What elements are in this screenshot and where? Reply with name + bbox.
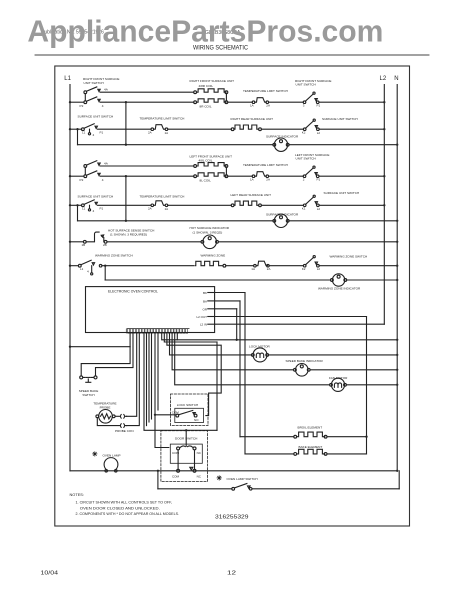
wire row H to N: [289, 220, 397, 222]
switch left front row F: [303, 175, 306, 178]
wire L1 bottom corner to N: [70, 470, 397, 472]
junction row C drop to row D: [76, 128, 78, 130]
junction row J to row K: [104, 265, 106, 267]
wire L1 bus: [69, 85, 71, 471]
svg-text:8L COIL: 8L COIL: [200, 179, 212, 183]
svg-text:SWITCH: SWITCH: [82, 393, 94, 397]
wire harness 13 short: [176, 333, 178, 340]
wire harness 7 row to N: [162, 333, 398, 340]
svg-text:2A: 2A: [148, 130, 152, 134]
wire row J to N: [319, 265, 397, 267]
svg-text:10/04: 10/04: [41, 571, 59, 577]
svg-text:4A: 4A: [104, 88, 109, 92]
junction row B at L2: [383, 101, 385, 103]
svg-text:UNIT SWITCH: UNIT SWITCH: [296, 157, 316, 161]
junction L1 row J: [69, 265, 71, 267]
switch surface unit row G right: [303, 204, 306, 207]
svg-text:2. COMPONENTS WITH * DO NOT: 2. COMPONENTS WITH * DO NOT APPEAR ON AL…: [76, 511, 180, 516]
wire lamp switch branch up: [398, 471, 400, 489]
wire L2 bus: [383, 85, 385, 325]
svg-text:K2: K2: [302, 267, 306, 271]
wire vertical 217: [216, 342, 218, 430]
indicator hot surface: [201, 240, 204, 243]
junction row D at N: [396, 144, 398, 146]
wire fan motor to N: [346, 384, 397, 386]
switch SW2 left front surface unit switch pole 1: [84, 165, 87, 168]
svg-text:BAKE ELEMENT: BAKE ELEMENT: [299, 445, 323, 449]
heating element bake: [294, 453, 297, 456]
wire harness 8 to door stem vertical: [164, 333, 217, 342]
wire stub BA to broil feed: [215, 300, 240, 302]
svg-text:COM: COM: [172, 475, 180, 479]
wire harness 2 speed bake return: [96, 333, 134, 376]
svg-text:K2: K2: [302, 130, 306, 134]
svg-text:4: 4: [102, 178, 104, 182]
svg-text:SURFACE UNIT SWITCH: SURFACE UNIT SWITCH: [78, 115, 114, 119]
svg-text:P1: P1: [317, 103, 321, 107]
wire switch to temp limit row C: [98, 128, 151, 130]
wire row K to N: [347, 279, 398, 281]
svg-text:L2: L2: [317, 131, 321, 135]
wire harness 4 probe bottom: [127, 333, 140, 425]
wire L1 feed to harness: [70, 346, 130, 348]
svg-text:WARMING ZONE: WARMING ZONE: [201, 254, 226, 258]
switch door upper contacts: [177, 447, 180, 450]
coil left rear surface unit: [231, 204, 234, 207]
svg-text:NC: NC: [197, 475, 202, 479]
svg-text:BK: BK: [203, 291, 207, 295]
svg-text:L1: L1: [64, 76, 71, 82]
wire row F to coil: [100, 175, 194, 177]
svg-text:TEMPERATURE LIMIT SWITCH: TEMPERATURE LIMIT SWITCH: [140, 194, 185, 198]
svg-text:L1: L1: [82, 207, 86, 211]
wire harness 6 lock and door com feed: [155, 333, 169, 447]
lock switch outer box: [171, 394, 209, 426]
wire temp limit to left rear coil: [168, 204, 232, 206]
svg-text:L2: L2: [317, 267, 321, 271]
svg-text:UNIT SWITCH: UNIT SWITCH: [296, 83, 316, 87]
wire OR vertical: [236, 309, 238, 340]
wire harness spare d: [157, 333, 159, 410]
wire BA vertical to broil: [239, 301, 241, 437]
switch warming zone: [78, 264, 81, 267]
svg-text:OVEN LAMP SWITCH: OVEN LAMP SWITCH: [227, 477, 258, 481]
wire row D to N: [289, 144, 397, 146]
wire stub L2 IN to L2 bus: [215, 323, 385, 325]
svg-text:2A: 2A: [148, 207, 152, 211]
svg-text:COM: COM: [172, 410, 180, 414]
indicator warming zone: [331, 279, 334, 282]
wire stub BK to bake feed: [215, 292, 245, 294]
svg-text:4: 4: [87, 269, 89, 273]
wire lamp switch branch down: [157, 471, 159, 489]
svg-text:316255329: 316255329: [215, 514, 249, 520]
svg-text:WARMING ZONE INDICATOR: WARMING ZONE INDICATOR: [318, 286, 361, 290]
svg-text:TEMPERATURE LIMIT SWITCH: TEMPERATURE LIMIT SWITCH: [243, 163, 288, 167]
svg-text:P2: P2: [80, 178, 84, 182]
svg-text:TEMPERATURE LIMIT SWITCH: TEMPERATURE LIMIT SWITCH: [243, 89, 288, 93]
electronic oven control box: [86, 287, 215, 333]
svg-text:P1: P1: [100, 207, 104, 211]
junction row B vertical drop: [125, 101, 127, 103]
junction lock feed: [154, 414, 156, 416]
wire row B to L2: [319, 101, 384, 103]
motor fan motor: [330, 383, 333, 386]
wire row F to row H drop: [125, 176, 127, 221]
wire L2 OUT vertical to elements: [366, 317, 368, 454]
svg-text:L2 OUT: L2 OUT: [196, 315, 207, 319]
wire SW1 pole tie: [84, 94, 86, 101]
coil 8L bottom: [194, 175, 197, 178]
junction L1 row C: [69, 128, 71, 130]
switch right front row B: [303, 101, 306, 104]
wire row C to row D drop: [77, 129, 79, 145]
svg-text:L2 IN: L2 IN: [200, 323, 207, 327]
svg-text:4: 4: [93, 209, 95, 213]
junction row G at L2: [383, 204, 385, 206]
wire temp limit to right rear coil: [168, 128, 232, 130]
junction fan motor at N: [396, 384, 398, 386]
connector probe con top: [120, 415, 126, 419]
svg-text:BROIL ELEMENT: BROIL ELEMENT: [298, 426, 323, 430]
svg-text:L2: L2: [317, 207, 321, 211]
switch SW1 pole 2: [84, 101, 87, 104]
junction row K at N: [396, 279, 398, 281]
wire broil feed left: [240, 436, 294, 438]
junction row F vertical drop: [125, 175, 127, 177]
wire row E to coil: [100, 165, 194, 167]
temperature limit switch row J: [254, 264, 257, 267]
svg-text:4A: 4A: [104, 161, 109, 165]
wire coil output tie: [225, 91, 228, 94]
junction row I at N: [396, 241, 398, 243]
wire coil to temp limit switch row F: [228, 175, 252, 177]
svg-text:1A: 1A: [250, 177, 254, 181]
svg-text:SURFACE UNIT SWITCH: SURFACE UNIT SWITCH: [322, 117, 358, 121]
wire row D to indicator: [78, 144, 274, 146]
junction L2 OUT at broil row: [365, 436, 367, 438]
wire stub OR right: [215, 308, 237, 310]
wire bake to junction: [327, 453, 367, 455]
switch warming zone right: [303, 264, 306, 267]
wire row I to N: [218, 241, 397, 243]
junction L1 row I: [69, 241, 71, 243]
label oven lamp switch: [217, 476, 221, 480]
connector probe con bottom: [120, 424, 126, 428]
wire harness 3 probe top: [127, 333, 137, 416]
wire coil to temp limit row J: [226, 265, 254, 267]
switch hot surface sense: [83, 240, 86, 243]
wire L1 to warming zone switch: [70, 265, 78, 267]
svg-text:SURFACE UNIT SWITCH: SURFACE UNIT SWITCH: [78, 194, 114, 198]
svg-text:L1: L1: [80, 267, 84, 271]
temperature limit switch row C: [151, 128, 154, 131]
svg-text:1A: 1A: [251, 267, 255, 271]
svg-text:K1: K1: [302, 207, 306, 211]
wire coil output tie group 2: [225, 165, 228, 168]
wire N bus: [396, 85, 398, 471]
wire SW2 pole tie: [84, 167, 86, 174]
junction speed bake indicator at N: [396, 369, 398, 371]
wire stub L2 OUT right: [215, 316, 367, 318]
label oven lamp: [93, 452, 97, 456]
svg-text:OVEN LAMP: OVEN LAMP: [103, 453, 121, 457]
junction OR wire on row: [236, 339, 238, 341]
wire harness spare a: [146, 333, 148, 425]
wire row K to warming indicator: [105, 279, 330, 281]
svg-text:P2: P2: [80, 104, 84, 108]
wire harness 12 fan motor row: [175, 333, 330, 385]
wire lamp switch line: [158, 488, 399, 490]
temperature probe: [99, 410, 113, 424]
switch SW2 pole 2: [84, 175, 87, 178]
coil warming zone: [195, 261, 223, 265]
svg-text:2A: 2A: [267, 267, 271, 271]
temperature limit switch row G: [151, 204, 154, 207]
svg-text:2B: 2B: [103, 243, 107, 247]
switch speed bake: [80, 376, 83, 379]
junction L1 row F: [69, 175, 71, 177]
wire row A to coil: [100, 91, 194, 93]
svg-text:LOCK SWITCH: LOCK SWITCH: [177, 403, 199, 407]
svg-text:RIGHT REAR SURFACE UNIT: RIGHT REAR SURFACE UNIT: [231, 117, 274, 121]
svg-text:NO: NO: [194, 418, 199, 422]
wire harness 11 speed bake indicator row: [172, 333, 294, 370]
wire harness 1 speed bake feed: [81, 333, 130, 376]
wire door com drop: [177, 450, 179, 469]
svg-text:WIRING SCHEMATIC: WIRING SCHEMATIC: [193, 46, 249, 52]
wire probe loop to connector: [97, 418, 120, 426]
wire harness spare b: [148, 333, 150, 422]
junction row F at L2: [383, 175, 385, 177]
junction row C at L2: [383, 128, 385, 130]
switch SW1 right front surface unit switch pole 1: [84, 91, 87, 94]
svg-text:2A: 2A: [266, 103, 270, 107]
svg-text:12: 12: [227, 571, 236, 577]
switch lock: [176, 414, 179, 417]
svg-text:1A: 1A: [165, 207, 169, 211]
svg-text:SPEED BAKE INDICATOR: SPEED BAKE INDICATOR: [286, 359, 324, 363]
indicator surface row D: [273, 143, 276, 146]
wire coil to temp limit switch: [228, 101, 252, 103]
junction harness row at N: [396, 339, 398, 341]
svg-text:4: 4: [102, 104, 104, 108]
svg-text:NOTES:: NOTES:: [70, 492, 84, 497]
svg-text:2A: 2A: [266, 177, 270, 181]
junction door stem: [185, 429, 187, 431]
junction L1 feed: [69, 346, 71, 348]
wire broil to junction: [327, 436, 367, 438]
wire door pivot stem: [185, 430, 187, 446]
wire BK vertical to bake: [244, 293, 246, 454]
wire to unit switch row F: [269, 175, 304, 177]
junction row G drop to row H: [76, 204, 78, 206]
coil 4/8R top: [194, 91, 197, 94]
wire coil to unit switch row G: [261, 204, 303, 206]
svg-text:LEFT REAR SURFACE UNIT: LEFT REAR SURFACE UNIT: [231, 193, 272, 197]
wire L1 to surface unit switch row G: [70, 204, 82, 206]
svg-text:WARMING ZONE SWITCH: WARMING ZONE SWITCH: [330, 254, 368, 258]
svg-text:ELECTRONIC OVEN CONTROL: ELECTRONIC OVEN CONTROL: [108, 290, 158, 294]
junction lamp switch branch: [157, 470, 159, 472]
switch surface unit row C right: [303, 128, 306, 131]
coil right rear surface unit: [231, 128, 234, 131]
wire row F to L2: [319, 175, 384, 177]
svg-text:WARMING ZONE SWITCH: WARMING ZONE SWITCH: [95, 254, 133, 258]
temperature limit switch row F: [252, 175, 255, 178]
motor lock motor: [251, 354, 254, 357]
wire row G to L2: [319, 204, 384, 206]
svg-text:TEMPERATURE LIMIT SWITCH: TEMPERATURE LIMIT SWITCH: [140, 117, 185, 121]
svg-text:OR: OR: [203, 307, 208, 311]
svg-text:P1: P1: [317, 177, 321, 181]
svg-text:PROBE CON: PROBE CON: [115, 429, 134, 433]
wire lock com feed: [155, 414, 176, 416]
lamp oven lamp: [104, 458, 118, 471]
wire to hot surface indicator: [107, 241, 201, 243]
door switch outer box: [161, 431, 208, 482]
svg-text:4/8R COIL: 4/8R COIL: [199, 84, 214, 88]
junction row H at N: [396, 220, 398, 222]
wire coil to unit switch row C: [261, 128, 303, 130]
header rule: [35, 54, 429, 56]
svg-text:(1 SHOWN, 3 REQUIRED): (1 SHOWN, 3 REQUIRED): [110, 233, 147, 237]
schematic border frame: [55, 66, 410, 526]
svg-text:UNIT SWITCH: UNIT SWITCH: [84, 81, 104, 85]
wire L1 to surface unit switch: [70, 128, 82, 130]
junction row D mid: [125, 144, 127, 146]
wire harness 9 to lock NO: [167, 333, 221, 415]
wire L1 to hot surface sense switch: [70, 241, 83, 243]
wire row B to coil: [100, 101, 194, 103]
wire row K drop: [104, 266, 106, 280]
coil 4/8L top: [194, 165, 197, 168]
junction row J at N: [396, 265, 398, 267]
connector strip on EOC: [126, 329, 189, 333]
svg-text:BA: BA: [203, 299, 207, 303]
svg-text:L2: L2: [380, 76, 387, 82]
svg-text:4: 4: [93, 133, 95, 137]
temperature limit switch row B: [252, 101, 255, 104]
wire to unit switch row B: [269, 101, 304, 103]
wire row G to row H drop: [77, 205, 79, 221]
wire row B to row D drop: [125, 102, 127, 145]
wire L1 to switch SW2: [70, 175, 84, 177]
wire L1 to switch SW1: [70, 101, 84, 103]
junction lock motor at N: [396, 354, 398, 356]
switch door lower contacts: [177, 469, 180, 472]
junction L1 row G: [69, 204, 71, 206]
svg-text:RIGHT FRONT SURFACE UNIT: RIGHT FRONT SURFACE UNIT: [190, 79, 235, 83]
svg-text:L1: L1: [82, 131, 86, 135]
wire row C to L2: [319, 128, 384, 130]
wire lock motor to N: [269, 354, 398, 356]
wire probe right to connector: [115, 415, 120, 417]
wire harness 5 door stem line: [144, 333, 217, 430]
indicator surface row H: [273, 219, 276, 222]
wire bake feed left: [245, 453, 294, 455]
junction row H mid: [125, 220, 127, 222]
svg-text:8R COIL: 8R COIL: [200, 105, 212, 109]
svg-text:DOOR SWITCH: DOOR SWITCH: [175, 436, 197, 440]
wire harness spare c: [151, 333, 153, 419]
junction bottom line at N: [396, 470, 398, 472]
svg-text:1A: 1A: [165, 131, 169, 135]
coil 8R bottom: [194, 101, 197, 104]
svg-text:OVEN DOOR CLOSED AND UNLOCKED.: OVEN DOOR CLOSED AND UNLOCKED.: [80, 505, 160, 510]
heating element broil: [294, 435, 297, 438]
svg-text:1B: 1B: [82, 243, 86, 247]
door switch inner box: [170, 444, 202, 463]
wire row H to indicator: [78, 220, 274, 222]
lock switch inner box: [175, 408, 204, 422]
svg-text:(1 SHOWN, 3 REQD): (1 SHOWN, 3 REQD): [193, 230, 223, 234]
svg-text:P1: P1: [100, 131, 104, 135]
svg-text:SURFACE UNIT SWITCH: SURFACE UNIT SWITCH: [324, 191, 360, 195]
wire row J to warming zone coil: [102, 265, 194, 267]
switch surface unit row C: [82, 128, 85, 131]
junction L1 row B: [69, 101, 71, 103]
svg-text:NC: NC: [197, 451, 202, 455]
wire to warming zone unit switch: [269, 265, 303, 267]
svg-text:1A: 1A: [250, 103, 254, 107]
svg-text:N: N: [394, 76, 398, 82]
switch oven lamp: [232, 487, 235, 490]
svg-text:4/8L COIL: 4/8L COIL: [199, 158, 213, 162]
svg-text:PROBE: PROBE: [100, 405, 111, 409]
wire door nc drop: [194, 450, 196, 469]
wire harness 10 lock motor row: [170, 333, 252, 355]
indicator speed bake: [294, 368, 297, 371]
switch surface unit row G: [82, 204, 85, 207]
wire speed bake indicator to N: [310, 369, 397, 371]
svg-text:AppliancePartsPros.com: AppliancePartsPros.com: [27, 14, 383, 49]
wire switch to temp limit row G: [98, 204, 151, 206]
svg-text:1. CIRCUIT SHOWN WITH ALL CON: 1. CIRCUIT SHOWN WITH ALL CONTROLS SET T…: [76, 500, 173, 505]
